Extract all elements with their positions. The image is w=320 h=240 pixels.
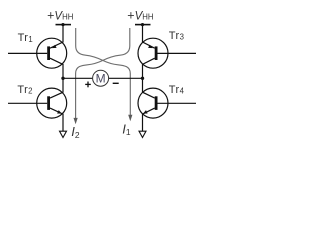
node: motor-right rail junction [141, 77, 144, 80]
transistor Tr4 (NPN) [138, 88, 196, 118]
motor + label [85, 82, 91, 88]
wire: right rail bottom (Tr4 emitter down) [143, 108, 155, 131]
transistor Tr2 (NPN) [8, 88, 67, 118]
node: motor-left rail junction [61, 77, 64, 80]
transistor Tr3 (PNP) [138, 38, 196, 68]
wire: right rail top (Tr3 emitter to +VHH) [143, 25, 155, 49]
junction dot right supply [141, 23, 144, 26]
wire: left rail top (Tr1 emitter to +VHH) [50, 25, 63, 49]
output open arrow left [60, 131, 67, 137]
svg-text:M: M [96, 72, 106, 86]
arrowhead I2 [74, 118, 78, 124]
motor - label [113, 82, 119, 84]
current path I2 (gray, right supply to bottom left) [76, 28, 130, 118]
arrowhead I1 [128, 115, 132, 121]
supply T-bar left [56, 24, 72, 26]
wire: motor line left [63, 77, 92, 79]
output open arrow right [139, 131, 146, 137]
wire: left rail middle (Tr1 collector to Tr2 collector) [50, 58, 63, 98]
motor M [93, 70, 109, 86]
wire: motor line right [109, 77, 143, 79]
wire: left rail bottom (Tr2 emitter down) [50, 108, 63, 131]
junction dot left supply [61, 23, 64, 26]
supply T-bar right [135, 24, 151, 26]
transistor Tr1 (PNP) [8, 38, 67, 68]
wire: right rail middle (Tr3 collector to Tr4 collector) [143, 58, 155, 98]
current path I1 (gray, left supply to bottom right) [76, 28, 131, 115]
